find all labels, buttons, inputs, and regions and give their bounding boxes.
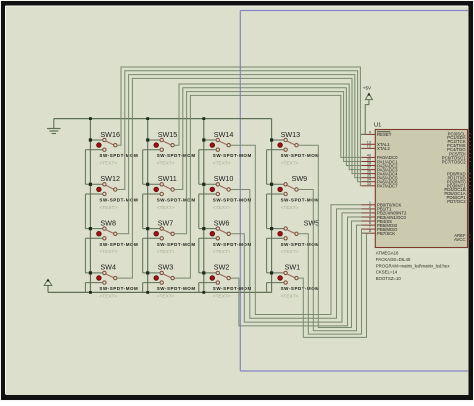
svg-text:PD7/OC2: PD7/OC2: [447, 199, 466, 204]
svg-text:SW10: SW10: [214, 174, 234, 183]
svg-text:<TEXT>: <TEXT>: [99, 205, 117, 211]
svg-text:SW14: SW14: [214, 130, 234, 139]
svg-text:SW5: SW5: [304, 218, 320, 227]
svg-text:+5V: +5V: [363, 86, 372, 91]
svg-text:BOOTSZ=10: BOOTSZ=10: [376, 276, 402, 281]
svg-text:U1: U1: [374, 123, 381, 129]
svg-text:PA7/ADC7: PA7/ADC7: [377, 184, 398, 189]
svg-text:SW16: SW16: [100, 130, 120, 139]
svg-text:SW12: SW12: [100, 174, 120, 183]
svg-text:PROGRAM=matrix_led\matrix_led.: PROGRAM=matrix_led\matrix_led.hex: [376, 263, 451, 268]
svg-text:SW4: SW4: [100, 263, 116, 272]
svg-text:CKSEL=14: CKSEL=14: [376, 270, 398, 275]
svg-text:SW15: SW15: [158, 130, 178, 139]
svg-text:SW13: SW13: [281, 130, 301, 139]
svg-text:9: 9: [369, 130, 371, 134]
svg-text:SW6: SW6: [214, 218, 230, 227]
svg-text:SW-SPDT-MOM: SW-SPDT-MOM: [213, 198, 252, 203]
svg-text:SW-SPDT-MOM: SW-SPDT-MOM: [99, 286, 138, 291]
svg-text:<TEXT>: <TEXT>: [99, 249, 117, 255]
svg-text:XTAL2: XTAL2: [377, 146, 390, 151]
svg-text:SW9: SW9: [292, 174, 308, 183]
svg-text:<TEXT>: <TEXT>: [213, 294, 231, 300]
svg-text:<TEXT>: <TEXT>: [157, 205, 175, 211]
svg-text:ATMEGA16: ATMEGA16: [376, 251, 399, 256]
svg-text:<TEXT>: <TEXT>: [99, 294, 117, 300]
svg-text:SW3: SW3: [158, 263, 174, 272]
svg-text:SW11: SW11: [158, 174, 177, 183]
svg-text:<TEXT>: <TEXT>: [281, 294, 299, 300]
svg-text:RESET: RESET: [377, 132, 392, 137]
svg-text:PACKAGE=DIL40: PACKAGE=DIL40: [376, 257, 411, 262]
svg-text:PC7/TOSC2: PC7/TOSC2: [442, 159, 466, 164]
svg-text:AVCC: AVCC: [454, 237, 466, 242]
svg-text:SW-SPDT-MOM: SW-SPDT-MOM: [157, 286, 196, 291]
svg-text:<TEXT>: <TEXT>: [281, 161, 299, 167]
svg-text:SW1: SW1: [285, 263, 301, 272]
svg-text:<TEXT>: <TEXT>: [281, 205, 299, 211]
svg-text:PB7/SCK: PB7/SCK: [377, 231, 395, 236]
svg-text:SW-SPDT-MOM: SW-SPDT-MOM: [213, 242, 252, 247]
svg-text:SW-SPDT-MOM: SW-SPDT-MOM: [213, 153, 252, 158]
svg-text:SW8: SW8: [100, 218, 116, 227]
svg-text:SW-SPDT-MOM: SW-SPDT-MOM: [157, 153, 196, 158]
svg-text:<TEXT>: <TEXT>: [213, 205, 231, 211]
svg-text:SW7: SW7: [158, 218, 174, 227]
svg-text:<TEXT>: <TEXT>: [157, 161, 175, 167]
svg-text:<TEXT>: <TEXT>: [157, 294, 175, 300]
svg-text:SW-SPDT-MOM: SW-SPDT-MOM: [157, 242, 196, 247]
svg-text:<TEXT>: <TEXT>: [99, 161, 117, 167]
svg-text:SW-SPDT-MOM: SW-SPDT-MOM: [281, 153, 320, 158]
svg-text:12: 12: [367, 144, 371, 148]
svg-text:<TEXT>: <TEXT>: [213, 161, 231, 167]
svg-text:8: 8: [369, 229, 371, 233]
svg-text:33: 33: [367, 182, 371, 186]
svg-text:SW-SPDT-MOM: SW-SPDT-MOM: [213, 286, 252, 291]
svg-text:<TEXT>: <TEXT>: [157, 249, 175, 255]
svg-text:<TEXT>: <TEXT>: [281, 249, 299, 255]
svg-text:SW-SPDT-MOM: SW-SPDT-MOM: [157, 198, 196, 203]
svg-text:SW2: SW2: [214, 263, 230, 272]
svg-text:<TEXT>: <TEXT>: [213, 249, 231, 255]
